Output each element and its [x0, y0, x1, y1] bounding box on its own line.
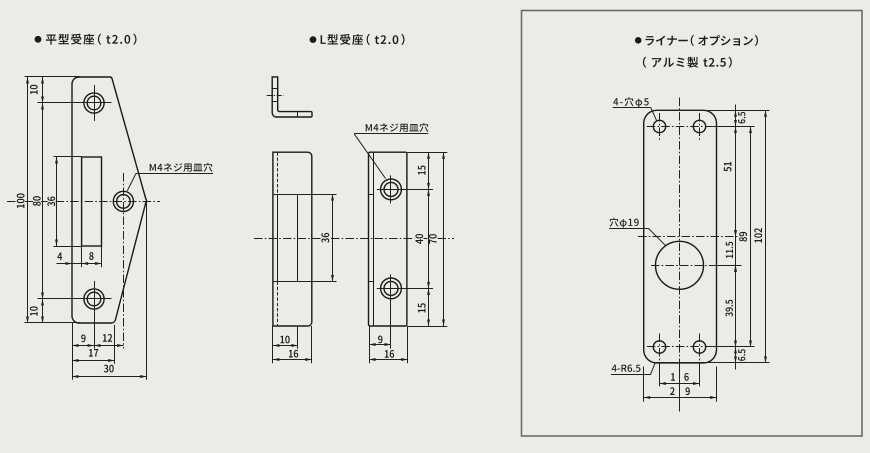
- dim 10 bottom: [42, 299, 44, 323]
- bottom screw hole M4 countersunk: [84, 289, 104, 309]
- extension line bottom edge: [25, 322, 81, 324]
- dim 17: [72, 360, 115, 362]
- title bullet: flat type seat: [35, 36, 42, 43]
- dim 30: [72, 376, 147, 378]
- crosshair bottom hole: [38, 298, 112, 300]
- top screw hole M4 countersunk: [84, 93, 104, 113]
- subtitle: （アルミ製 t2.5）: [643, 57, 732, 68]
- title bullet: L type seat: [310, 36, 317, 43]
- ext lines for slot width dims 4 and 8: [81, 246, 83, 267]
- ext lines right of front view: [407, 152, 447, 154]
- dim 16 (liner): [660, 383, 700, 385]
- extension lines slot 36: [54, 156, 82, 158]
- dim 9 (front): [369, 344, 391, 346]
- ext below for dim 9: [390, 302, 392, 348]
- dim chain 15/40/15: [428, 152, 430, 189]
- icon leg subdivision line: [297, 112, 299, 117]
- crosshair side hole vertical: [123, 173, 125, 349]
- notch visible edges: [277, 194, 279, 282]
- dim 36 slot: [56, 157, 58, 246]
- leader M4 countersunk label (left): [136, 173, 213, 175]
- extension lines bottom dims: [72, 323, 74, 380]
- liner hole top-right φ5: [693, 120, 705, 132]
- title text: ライナー（オプション）: [645, 35, 758, 46]
- front hole lower M4 countersunk: [381, 278, 402, 299]
- ext lines bottom of liner: [643, 367, 645, 402]
- centerline horizontal through part: [7, 201, 16, 203]
- notch top edge + ext: [273, 194, 337, 196]
- notch bottom edge + ext: [273, 281, 337, 283]
- front hole upper M4 countersunk: [381, 179, 402, 200]
- liner vertical centerline: [679, 98, 681, 363]
- dim 100: [27, 77, 29, 323]
- icon centerline: [267, 95, 284, 97]
- liner outline rounded rect: [644, 110, 717, 363]
- dim 89: [750, 127, 752, 348]
- front view outline (L seat): [369, 152, 407, 326]
- liner hole bottom-right φ5: [693, 341, 705, 353]
- dim 70: [443, 152, 445, 326]
- dim 10 (side view): [273, 345, 298, 347]
- dim 4 / 8 under slot: [57, 263, 102, 265]
- small hole vertical crosshairs: [659, 113, 661, 141]
- hidden bend line (dashed): [277, 152, 279, 194]
- mid height centerline: [638, 236, 738, 238]
- slot cutout 8x36: [82, 157, 102, 246]
- crosshair top hole: [38, 102, 112, 104]
- liner hole bottom-left φ5: [653, 341, 665, 353]
- ext lines right of liner: [656, 110, 770, 112]
- ext lines bottom front view: [369, 326, 371, 363]
- icon countersink hole edge marks: [272, 88, 278, 90]
- top hole row centerline: [647, 126, 713, 128]
- leader M4 countersunk label (middle): [354, 133, 428, 135]
- liner hole top-left φ5: [653, 120, 665, 132]
- leader 4-R6.5: [611, 374, 650, 376]
- title text: L型受座（t2.0）: [321, 34, 405, 45]
- dim 9 / 12: [72, 345, 94, 347]
- title text: 平型受座（t2.0）: [46, 34, 137, 45]
- dim 36 (middle): [332, 194, 334, 282]
- ext lines bottom (side view): [272, 326, 274, 363]
- notch edge ticks on front view: [369, 194, 374, 196]
- big hole horizontal centerline: [651, 265, 742, 267]
- dim 16 (side view): [273, 359, 312, 361]
- bend tangent line: [373, 152, 375, 326]
- centerline middle drawing: [254, 238, 321, 240]
- leader 穴φ19: [609, 228, 648, 230]
- extension line top edge: [25, 76, 81, 78]
- bottom hole row centerline: [647, 346, 713, 348]
- part outline: flat striker plate: [72, 77, 147, 323]
- dim chain 6.5/51/11.5/39.5/6.5: [735, 105, 737, 370]
- L cross-section icon: [272, 77, 312, 117]
- dim 102: [765, 110, 767, 363]
- dim 29 (liner): [644, 397, 717, 399]
- crosshairs front holes: [377, 189, 433, 191]
- leader 4-穴φ5: [613, 107, 651, 109]
- liner big hole φ19: [656, 241, 704, 289]
- side view outline (L seat): [273, 152, 312, 326]
- title bullet: liner: [635, 37, 642, 44]
- dim 80: [42, 103, 44, 299]
- option box frame: [522, 11, 863, 437]
- dim 10 top: [42, 77, 44, 103]
- side screw hole M4 countersunk: [113, 191, 133, 211]
- dim 16 (front): [369, 359, 408, 361]
